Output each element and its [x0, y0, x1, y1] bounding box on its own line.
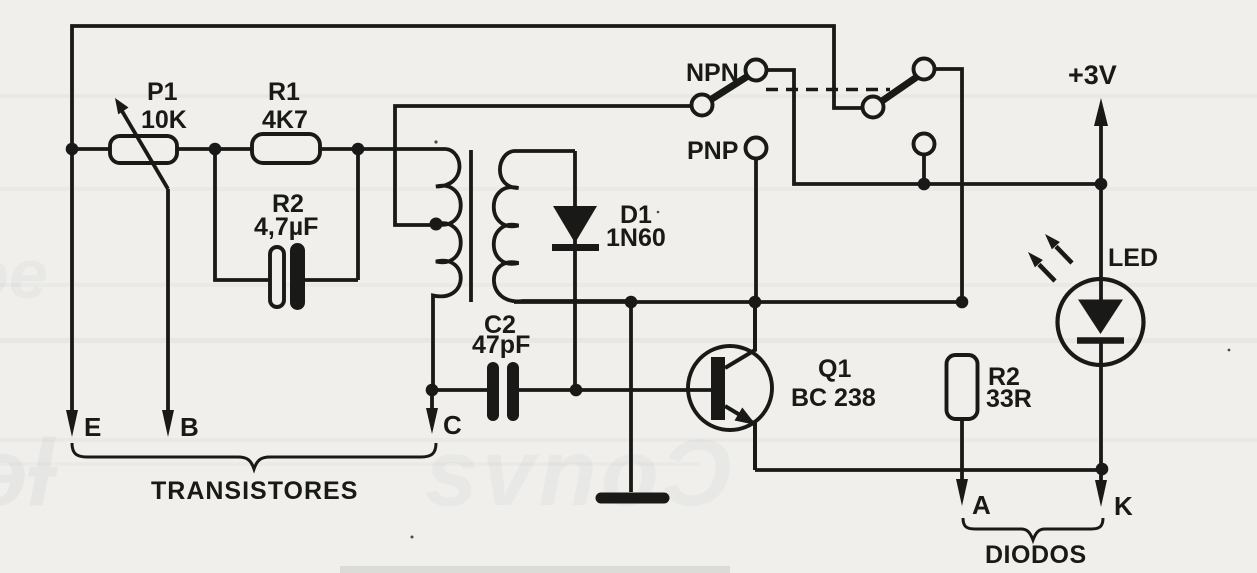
node +3V row — [1095, 178, 1108, 191]
E arrow — [70, 149, 74, 412]
diode D1 triangle — [553, 206, 597, 243]
wire: main row P1 left segment — [72, 147, 110, 151]
transistor Q1 collector lead — [725, 302, 755, 368]
node transformer tap — [430, 218, 443, 231]
capacitor R2 4,7uF left plate (hollow) — [270, 247, 284, 307]
capacitor R2 4,7uF right plate (solid) — [290, 243, 305, 310]
node C arrow — [426, 384, 439, 397]
wire: ground leg — [629, 302, 633, 492]
transformer T1 core — [469, 150, 473, 302]
K arrow — [1099, 469, 1103, 482]
svg-text:10K: 10K — [141, 106, 187, 134]
capacitor C2 right plate — [507, 362, 519, 421]
ghost bleed-through text — [0, 235, 735, 526]
capacitor C2 left plate — [487, 362, 499, 421]
svg-text:Q1: Q1 — [818, 355, 851, 383]
P1 wiper arrowhead — [115, 98, 129, 114]
svg-text:ɘƚ: ɘƚ — [0, 420, 59, 526]
paper background bands — [0, 94, 1257, 466]
svg-text:A: A — [972, 490, 991, 520]
wire: bottom row from winding to R2 33R — [514, 300, 962, 304]
svg-text:LED: LED — [1108, 244, 1158, 272]
svg-text:R1: R1 — [268, 78, 300, 106]
node D1 base row — [570, 384, 583, 397]
PNP contact — [746, 138, 767, 159]
switch S1 lever — [711, 76, 748, 100]
svg-text:47pF: 47pF — [472, 331, 530, 359]
transformer T1 secondary (right winding) — [494, 151, 631, 301]
LED cathode bar — [1077, 337, 1124, 344]
LED emission arrow 2 — [1045, 234, 1072, 263]
wire: emitter row — [755, 468, 1101, 472]
wire: P1 to R1 segment — [177, 147, 252, 151]
wire: S1 top contact to +3V column — [767, 70, 1101, 184]
LED circle — [1058, 279, 1144, 365]
paper specks — [411, 140, 1231, 538]
svg-text:BC 238: BC 238 — [791, 384, 876, 412]
bottom edge smudge — [340, 566, 730, 573]
svg-text:E: E — [84, 412, 101, 442]
transistor Q1 base bar — [711, 357, 725, 420]
node main row left — [66, 143, 79, 156]
C arrow — [430, 390, 434, 410]
LED wire bottom — [1099, 341, 1103, 469]
transistor Q1 circle — [688, 346, 772, 430]
node R1 right — [352, 143, 365, 156]
wire: R2 capacitor branch right leg — [305, 149, 358, 280]
svg-text:33R: 33R — [986, 385, 1032, 413]
diode D1 vertical wire — [573, 151, 577, 389]
transformer T1 primary (left winding) — [433, 149, 461, 390]
svg-text:PNP: PNP — [687, 137, 738, 165]
wire: S2 top contact to R2 33R — [935, 69, 962, 303]
junction nodes — [66, 143, 1109, 476]
diode D1 cathode bar — [552, 244, 599, 251]
svg-text:4K7: 4K7 — [262, 106, 308, 134]
svg-text:1N60: 1N60 — [606, 224, 666, 252]
wire: base row with C2 — [432, 388, 711, 392]
switch S1 top contact — [746, 60, 767, 81]
wire: R2 33R bottom to A arrow — [960, 419, 964, 482]
dashed gang link — [766, 88, 890, 92]
A arrowhead — [956, 479, 968, 506]
transistor Q1 emitter lead — [725, 406, 755, 470]
wire: S2 unused contact stub — [922, 155, 926, 184]
wire: R1 to transformer top — [320, 147, 446, 151]
switch S1 pole contact — [692, 95, 713, 116]
node P1-R1 — [209, 143, 222, 156]
svg-text:K: K — [1114, 491, 1133, 521]
svg-text:TRANSISTORES: TRANSISTORES — [151, 477, 358, 505]
switch S2 lever — [882, 78, 916, 102]
svg-text:B: B — [180, 412, 199, 442]
wire: R2 capacitor branch left leg — [215, 149, 270, 280]
svg-text:svnoƆ: svnoƆ — [425, 420, 735, 526]
node LED bottom — [1096, 463, 1109, 476]
switch S2 top contact — [914, 59, 935, 80]
resistor R2 33R — [947, 355, 978, 419]
node collector/PNP — [749, 296, 762, 309]
node S2 unused stub — [918, 178, 931, 191]
brace DIODOS — [963, 518, 1103, 540]
wire: PNP contact down to collector node — [754, 159, 758, 302]
resistor R1 — [252, 134, 320, 163]
node R2 33R top — [956, 296, 969, 309]
LED triangle — [1078, 300, 1123, 335]
svg-text:ɘe: ɘe — [0, 235, 48, 313]
potentiometer P1 — [110, 111, 177, 413]
svg-text:NPN: NPN — [686, 59, 739, 87]
ground bar — [601, 493, 664, 504]
switch S2 unused contact — [914, 134, 935, 155]
svg-text:P1: P1 — [147, 78, 178, 106]
svg-text:+3V: +3V — [1068, 60, 1117, 90]
svg-text:4,7µF: 4,7µF — [254, 213, 318, 241]
wire: NPN pole row to transformer center tap — [395, 106, 691, 225]
brace TRANSISTORES — [72, 443, 436, 469]
wire: top bus from left column to switch S2 pole — [72, 26, 862, 149]
node ground leg — [625, 296, 638, 309]
B arrow head — [162, 410, 174, 437]
LED wire top — [1099, 184, 1103, 301]
switch S2 pole contact — [863, 97, 884, 118]
transistor Q1 emitter arrowhead — [735, 408, 757, 426]
LED emission arrow 1 — [1028, 252, 1055, 281]
svg-text:DIODOS: DIODOS — [985, 541, 1087, 569]
+3V arrow — [1099, 120, 1103, 184]
svg-text:C: C — [443, 410, 462, 440]
